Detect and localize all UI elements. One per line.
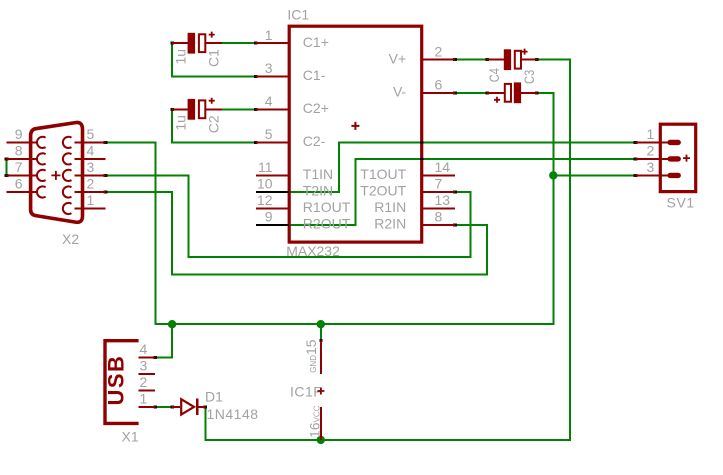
svg-text:2: 2 — [435, 43, 443, 59]
svg-text:1N4148: 1N4148 — [207, 406, 259, 422]
svg-text:6: 6 — [435, 76, 443, 92]
SV1 pin 2 — [636, 158, 669, 160]
black blend where wires cross IC1 right edge — [420, 141, 424, 143]
wire net VCC: D1 cathode -> bottom bus -> V+ column -> C4 — [205, 60, 569, 440]
wire IC1 pin2 V+ to C4 — [455, 59, 487, 61]
svg-text:T1IN: T1IN — [303, 166, 333, 182]
svg-text:1u: 1u — [173, 49, 189, 65]
X2 pin 4 — [75, 158, 106, 160]
IC1 pin 9 stub — [256, 224, 289, 226]
wire USB pin1 to D1 anode — [155, 406, 172, 408]
svg-text:T2IN: T2IN — [303, 183, 333, 199]
svg-text:4: 4 — [265, 93, 273, 109]
svg-text:D1: D1 — [205, 389, 223, 405]
svg-text:R2OUT: R2OUT — [303, 216, 351, 232]
svg-text:R2IN: R2IN — [374, 216, 406, 232]
X2 pin 2 — [75, 191, 106, 193]
diode D1 — [172, 406, 180, 408]
svg-text:1: 1 — [140, 391, 148, 407]
IC1 pin 2 stub — [422, 59, 455, 61]
wire C1 minus loop to IC1 pin3 — [172, 43, 256, 76]
svg-text:C1-: C1- — [303, 67, 326, 83]
svg-text:R1IN: R1IN — [374, 199, 406, 215]
wire net R2IN: IC1 pin8 to X2 pin2 — [106, 192, 488, 275]
svg-text:SV1: SV1 — [667, 195, 695, 211]
X1 pin 2 — [139, 389, 156, 391]
wire USB pin4 to GND bus — [155, 324, 172, 357]
svg-text:9: 9 — [15, 126, 23, 142]
svg-text:USB: USB — [104, 355, 129, 406]
IC1 pin 12 stub — [256, 208, 289, 210]
IC1 pin 14 stub — [422, 174, 455, 176]
wire net T2OUT: IC1 pin7 to X2 pin3 — [106, 175, 471, 257]
svg-text:13: 13 — [435, 192, 451, 208]
svg-text:8: 8 — [15, 143, 23, 159]
svg-text:IC1: IC1 — [287, 6, 309, 22]
connector SV1 — [660, 124, 695, 191]
svg-text:C4: C4 — [486, 68, 502, 82]
svg-text:10: 10 — [257, 176, 273, 192]
X1 pin 1 — [139, 406, 156, 408]
wire-end blends — [453, 58, 457, 61]
wire IC1 pin6 V- to C3 — [455, 92, 487, 94]
svg-text:4: 4 — [87, 143, 95, 159]
X2 pin 8 — [6, 158, 37, 160]
svg-text:1: 1 — [647, 126, 655, 142]
X1 pin 3 — [139, 373, 156, 375]
connector X1 USB bracket — [105, 341, 139, 424]
IC1 pin 10 stub — [256, 191, 289, 193]
svg-text:C1+: C1+ — [303, 34, 329, 50]
wire C2 minus loop to IC1 pin5 — [172, 109, 256, 142]
svg-text:X1: X1 — [122, 428, 139, 444]
connector X2 DB9 shell — [31, 122, 83, 222]
svg-text:7: 7 — [15, 159, 23, 175]
capacitor C1 — [172, 42, 188, 44]
svg-text:5: 5 — [87, 126, 95, 142]
IC1 pin 7 stub — [422, 191, 455, 193]
X1 pin 4 — [139, 356, 156, 358]
svg-text:1: 1 — [87, 192, 95, 208]
svg-text:R1OUT: R1OUT — [303, 199, 351, 215]
X2 origin cross — [51, 171, 60, 180]
svg-text:C2+: C2+ — [303, 100, 329, 116]
X2 pin 5 — [75, 141, 106, 143]
wire C1 plus to IC1 pin1 — [222, 42, 256, 44]
capacitor C3 — [487, 92, 504, 94]
svg-text:T1OUT: T1OUT — [360, 166, 406, 182]
svg-text:C3: C3 — [521, 70, 537, 84]
svg-text:14: 14 — [435, 159, 451, 175]
wire IC1P pin15 to GND bus — [320, 324, 322, 341]
op IC1 MAX232 body — [289, 26, 422, 242]
IC1 pin 1 stub — [256, 42, 289, 44]
wire net GND: X2 pin5 -> bus — [106, 142, 554, 324]
svg-text:8: 8 — [435, 209, 443, 225]
svg-text:3: 3 — [87, 159, 95, 175]
IC1P pin 15 GND — [320, 341, 322, 374]
wire C2 plus to IC1 pin4 — [222, 108, 256, 110]
svg-text:3: 3 — [647, 159, 655, 175]
svg-text:C2-: C2- — [303, 133, 326, 149]
wire net R2OUT: IC1 pin9 through box to SV1 pin2 — [256, 159, 636, 225]
IC1P pin 16 VCC — [320, 407, 322, 440]
junction dot VCC/IC1P16 — [317, 436, 325, 444]
svg-text:2: 2 — [140, 374, 148, 390]
svg-text:C2: C2 — [206, 115, 222, 133]
SV1 pin 3 — [636, 174, 669, 176]
svg-text:V+: V+ — [389, 50, 407, 66]
svg-text:X2: X2 — [62, 231, 79, 247]
svg-text:5: 5 — [265, 126, 273, 142]
svg-text:V-: V- — [393, 83, 407, 99]
wire C3 to GND node at SV1 — [537, 93, 554, 176]
capacitor C4 — [487, 59, 504, 61]
SV1 pin 1 — [636, 141, 669, 143]
X2 pin 1 — [75, 208, 106, 210]
junction dot V-/GND/SV1 pin3 — [549, 171, 557, 179]
svg-text:MAX232: MAX232 — [286, 243, 340, 259]
junction dot GND/IC1P15 — [317, 320, 325, 328]
IC1 pin 4 stub — [256, 108, 289, 110]
IC1 pin 6 stub — [422, 92, 455, 94]
IC1 pin 3 stub — [256, 75, 289, 77]
svg-text:1u: 1u — [173, 115, 189, 131]
X2 pin 7 — [6, 174, 37, 176]
wire SV1 pin3 to GND node — [553, 174, 635, 176]
svg-text:3: 3 — [140, 357, 148, 373]
svg-text:3: 3 — [265, 60, 273, 76]
svg-text:2: 2 — [87, 176, 95, 192]
svg-text:6: 6 — [15, 176, 23, 192]
svg-text:11: 11 — [258, 159, 273, 175]
IC1 origin cross — [351, 122, 359, 130]
svg-text:7: 7 — [435, 176, 443, 192]
svg-text:12: 12 — [257, 192, 273, 208]
X2 pin 3 — [75, 174, 106, 176]
IC1 pin 11 stub — [256, 174, 289, 176]
X2 pin 6 — [6, 191, 37, 193]
svg-text:9: 9 — [265, 209, 273, 225]
X2 pin 9 — [6, 141, 37, 143]
svg-text:T2OUT: T2OUT — [360, 183, 406, 199]
wire net T2IN: IC1 pin10 through box to SV1 pin1 — [256, 142, 636, 192]
svg-text:2: 2 — [647, 143, 655, 159]
IC1 pin 13 stub — [422, 208, 455, 210]
svg-text:C1: C1 — [206, 49, 222, 67]
IC1 pin 8 stub — [422, 224, 455, 226]
IC1 pin 5 stub — [256, 141, 289, 143]
svg-text:4: 4 — [140, 341, 148, 357]
svg-text:1: 1 — [265, 27, 273, 43]
wire X2 pin8-pin7 jumper — [6, 159, 8, 176]
capacitor C2 — [172, 108, 188, 110]
junction dot GND/USB4 — [168, 320, 176, 328]
